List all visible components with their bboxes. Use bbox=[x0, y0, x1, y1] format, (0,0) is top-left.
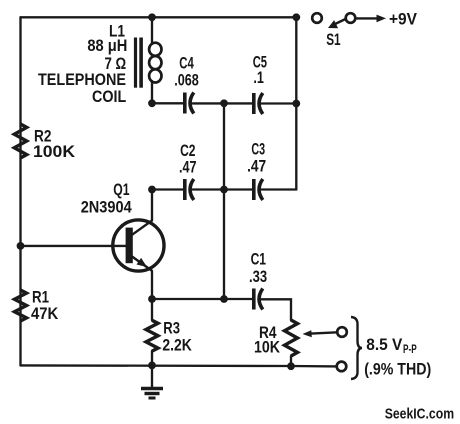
wire right rail bbox=[295, 17, 297, 189]
svg-text:.1: .1 bbox=[253, 68, 264, 87]
resistor R2 bbox=[14, 124, 26, 158]
wire middle rail bbox=[223, 103, 225, 299]
wire R3 bottom lead bbox=[151, 351, 153, 365]
svg-text:10K: 10K bbox=[254, 338, 281, 357]
wire base lead bbox=[21, 245, 127, 247]
svg-text:47K: 47K bbox=[31, 304, 59, 323]
svg-text:+9V: +9V bbox=[389, 9, 418, 28]
wire row2 segment c bbox=[261, 188, 296, 190]
inductor L1 core bars bbox=[134, 38, 143, 88]
node row2 left bbox=[148, 186, 156, 194]
capacitor C2 bbox=[185, 179, 194, 200]
svg-text:(.9% THD): (.9% THD) bbox=[364, 360, 431, 379]
svg-text:Q1: Q1 bbox=[113, 180, 129, 199]
node emitter bbox=[148, 295, 156, 303]
wire R3 top lead bbox=[151, 299, 153, 320]
wire row2 segment a bbox=[152, 188, 185, 190]
svg-text:88 μH: 88 μH bbox=[87, 36, 127, 55]
switch S1 terminal 1 bbox=[312, 13, 322, 23]
+9V supply arrow bbox=[356, 15, 387, 23]
node row1 middle bbox=[220, 99, 228, 107]
svg-text:2N3904: 2N3904 bbox=[81, 197, 132, 216]
node row1 right bbox=[292, 100, 300, 108]
resistor R1 bbox=[15, 290, 27, 321]
svg-text:S1: S1 bbox=[326, 30, 340, 49]
resistor R4 bbox=[285, 320, 298, 356]
wire bottom rail bbox=[21, 365, 337, 366]
inductor L1 bbox=[149, 43, 161, 83]
wire top rail bbox=[21, 16, 297, 18]
wire L1 bottom lead bbox=[151, 81, 153, 103]
wire row2 segment b bbox=[193, 188, 254, 190]
svg-text:8.5 V: 8.5 V bbox=[366, 335, 403, 354]
output terminal lower bbox=[337, 362, 347, 372]
wire row1 segment c bbox=[261, 102, 296, 104]
capacitor C3 bbox=[254, 179, 263, 200]
node top L1 bbox=[148, 13, 156, 21]
svg-text:P-P: P-P bbox=[403, 344, 417, 356]
wire emitter row b bbox=[261, 299, 291, 320]
label 8.5 Vp-p bbox=[366, 335, 417, 356]
output brace bbox=[351, 317, 362, 379]
transistor Q1 bbox=[113, 220, 164, 271]
svg-text:COIL: COIL bbox=[92, 87, 126, 106]
wire emitter row a bbox=[152, 298, 254, 300]
node emitter middle bbox=[220, 295, 228, 303]
resistor R3 bbox=[146, 320, 158, 351]
wire L1 top lead bbox=[151, 17, 153, 44]
svg-text:.47: .47 bbox=[247, 157, 266, 176]
svg-text:.33: .33 bbox=[249, 267, 267, 286]
node row2 middle bbox=[220, 186, 228, 194]
node top right bbox=[292, 13, 300, 21]
capacitor C5 bbox=[254, 93, 263, 114]
svg-text:100K: 100K bbox=[33, 142, 76, 161]
ground bbox=[141, 365, 163, 398]
node row1 L1 bbox=[148, 99, 156, 107]
node ground bbox=[148, 362, 156, 370]
node R4 bottom bbox=[287, 362, 295, 370]
R4 wiper arrow bbox=[303, 330, 338, 337]
wire emitter lead bbox=[151, 271, 153, 299]
svg-text:.47: .47 bbox=[179, 158, 197, 177]
wire row1 segment a bbox=[152, 102, 185, 104]
switch S1 lever bbox=[328, 19, 346, 28]
svg-text:2.2K: 2.2K bbox=[162, 335, 192, 354]
capacitor C4 bbox=[185, 93, 194, 114]
svg-text:.068: .068 bbox=[174, 70, 199, 89]
wire collector lead bbox=[132, 190, 152, 235]
svg-text:SeekIC.com: SeekIC.com bbox=[385, 406, 454, 423]
wire row1 segment b bbox=[193, 102, 254, 104]
wire R4 bottom lead bbox=[290, 356, 292, 366]
output terminal upper bbox=[337, 327, 347, 337]
wire left rail bbox=[19, 17, 21, 365]
svg-text:C1: C1 bbox=[251, 250, 266, 269]
capacitor C1 bbox=[254, 289, 263, 310]
switch S1 terminal 2 bbox=[346, 13, 356, 23]
node base left bbox=[17, 242, 25, 250]
